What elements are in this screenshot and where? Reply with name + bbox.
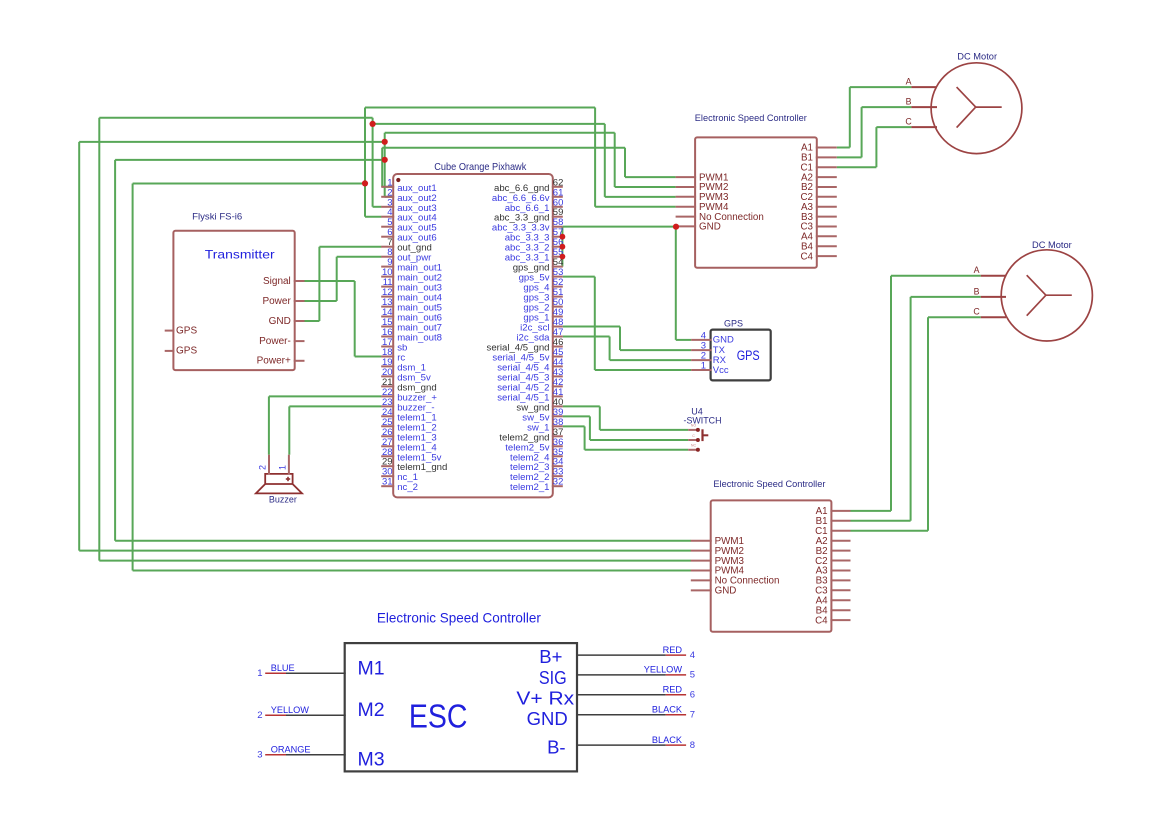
buzzer symbol [256, 474, 302, 494]
svg-text:YELLOW: YELLOW [271, 705, 310, 715]
wire Transmitter Power to Pixhawk out_pwr pin8 [305, 257, 382, 301]
buzzer plus mark [286, 477, 290, 481]
U1 pin 31 nc_2 [381, 477, 418, 494]
svg-text:ESC: ESC [409, 698, 468, 736]
wire Pixhawk sw_gnd pin40 to switch U4 pin1 [563, 406, 688, 430]
svg-text:Electronic Speed Controller: Electronic Speed Controller [377, 610, 541, 626]
buzzer pin 2 stub [268, 455, 270, 475]
label Electronic Speed Controller (ESC2) [713, 479, 825, 489]
wire Pixhawk i2c_scl pin48 to GPS TX [563, 327, 691, 351]
U1 pin 61 abc_6.6_6.6v [492, 187, 563, 204]
svg-text:Buzzer: Buzzer [269, 495, 297, 505]
ESC2 pin PWM4 [691, 566, 745, 577]
wire net aux_out4: Pixhawk pin4 to ESC1 PWM4 and ESC2 PWM4 [133, 108, 691, 571]
svg-text:Power: Power [262, 296, 291, 307]
U1 pin 9 main_out1 [381, 257, 442, 274]
svg-text:GPS: GPS [724, 319, 743, 329]
svg-text:3: 3 [257, 750, 262, 761]
GPS pin 3 TX [691, 341, 726, 356]
wire ESC2 B1 to DC Motor2 B [851, 297, 981, 521]
GPS pin 4 GND [691, 330, 734, 345]
svg-text:B: B [974, 286, 980, 296]
wire Transmitter Signal to Pixhawk rc pin18 [305, 281, 382, 357]
ESC1 pin C3 [800, 222, 836, 233]
U1 pin 28 telem1_5v [381, 447, 441, 464]
svg-text:1: 1 [257, 668, 262, 679]
wire net aux_out2: Pixhawk pin2 to ESC1 PWM2, ESC2 PWM2, ESC2 PWM1 [79, 133, 691, 551]
svg-text:GND: GND [269, 316, 291, 327]
U1 pin 44 serial_4/5_4 [497, 357, 563, 374]
svg-text:NO: NO [691, 424, 697, 428]
ESC1 pin A2 [801, 172, 837, 183]
wire Transmitter GND to Pixhawk out_gnd pin7 [305, 247, 382, 321]
ESC3 label ESC [409, 698, 468, 736]
svg-text:DC Motor: DC Motor [957, 52, 997, 62]
wire Pixhawk sw_1 pin38 to switch U4 pin3 [563, 426, 688, 449]
ESC3 label M3 [358, 749, 385, 771]
U1 pin1 orientation dot [396, 178, 400, 182]
U1 pin 23 buzzer_- [381, 397, 434, 414]
svg-text:nc_2: nc_2 [397, 482, 418, 493]
wire Pixhawk gps_5v pin53 to GPS Vcc [563, 277, 691, 370]
svg-text:DC Motor: DC Motor [1032, 240, 1072, 250]
U1 pin 41 serial_4/5_1 [497, 387, 563, 404]
ESC2 pin PWM2 [691, 546, 744, 557]
ESC3 label V+ Rx [516, 688, 575, 709]
transmitter pin GPS1 [165, 325, 198, 336]
U1 pin 14 main_out6 [381, 307, 442, 324]
svg-text:-SWITCH: -SWITCH [684, 415, 722, 425]
U1 pin 34 telem2_3 [510, 457, 563, 474]
ESC3 pin 7 wire BLACK [576, 705, 695, 721]
U1 pin 18 rc [381, 347, 405, 364]
U1 pin 55 abc_3.3_1 [505, 247, 564, 264]
wire Pixhawk buzzer_- pin23 to Buzzer pin1 [289, 406, 381, 454]
GPS module body [711, 330, 771, 381]
U1 pin 50 gps_2 [523, 297, 563, 314]
svg-text:C: C [905, 117, 912, 127]
ESC1 pin GND [676, 222, 721, 233]
ESC3 detail body [345, 643, 577, 771]
svg-text:Power+: Power+ [257, 356, 291, 367]
svg-text:SIG: SIG [539, 667, 567, 688]
ESC1 pin B4 [801, 241, 837, 252]
ESC3 label SIG [539, 667, 567, 688]
ESC1 pin C1 [800, 162, 836, 173]
U1 pin 37 telem2_gnd [499, 427, 563, 444]
svg-text:GND: GND [699, 222, 721, 233]
junction pin 57 [560, 234, 566, 240]
svg-text:BLACK: BLACK [652, 705, 683, 715]
U1 pin 7 out_gnd [381, 237, 432, 254]
U1 pin 40 sw_gnd [516, 397, 563, 414]
svg-text:4: 4 [690, 650, 695, 661]
U1 pin 20 dsm_5v [381, 367, 431, 384]
svg-text:Transmitter: Transmitter [205, 248, 275, 262]
transmitter pin GPS2 [165, 346, 198, 357]
svg-text:8: 8 [690, 740, 695, 751]
wire bus Pixhawk pins 58-54 vertical [561, 227, 563, 267]
ESC1 pin A3 [801, 202, 837, 213]
ESC2 pin A2 [816, 536, 851, 547]
transmitter pin Power [262, 296, 304, 307]
ESC3 label B+ [539, 646, 562, 667]
wire ESC1 B1 to DC Motor1 B [837, 107, 912, 157]
buzzer pin number 1 [278, 465, 288, 470]
motor M2 winding Y symbol [1027, 275, 1072, 316]
U1 pin 21 dsm_gnd [381, 377, 436, 394]
svg-text:GND: GND [527, 708, 568, 729]
svg-text:GND: GND [715, 586, 737, 597]
wire net aux_out1: Pixhawk pin1 to ESC1 PWM1 [382, 148, 675, 187]
ESC3 label B- [547, 737, 566, 758]
U1 pin 36 telem2_5v [505, 437, 563, 454]
transmitter pin GND [269, 316, 305, 327]
ESC1 pin PWM1 [676, 172, 729, 183]
motor M1 winding Y symbol [957, 87, 1002, 128]
U1 pin 43 serial_4/5_3 [497, 367, 563, 384]
svg-text:GPS: GPS [176, 346, 197, 357]
svg-text:B-: B- [547, 737, 566, 758]
ESC2 pin C3 [815, 586, 850, 597]
motor M2 DC Motor body [1001, 250, 1092, 341]
U1 pin 15 main_out7 [381, 317, 442, 334]
svg-text:C4: C4 [815, 615, 828, 626]
svg-text:Signal: Signal [263, 276, 291, 287]
ESC3 pin 6 wire RED [576, 685, 695, 701]
U1 pin 52 gps_4 [523, 277, 563, 294]
motor M2 pin A [974, 265, 1006, 276]
switch U4 pin 2 C [688, 434, 700, 442]
buzzer pin 1 stub [288, 455, 290, 475]
wire ESC1 A1 to DC Motor1 A [837, 87, 912, 147]
svg-text:C: C [692, 434, 695, 438]
svg-text:5: 5 [690, 670, 695, 681]
motor M1 DC Motor body [931, 63, 1022, 154]
label Cube Orange Pixhawk [434, 161, 527, 173]
ESC1 pin No Connection [676, 212, 764, 223]
svg-text:2: 2 [258, 465, 268, 470]
U1 pin 25 telem1_2 [381, 417, 436, 434]
motor M1 pin C [905, 117, 937, 128]
U1 pin 60 abc_6.6_1 [505, 197, 564, 214]
ESC1 pin PWM4 [676, 202, 729, 213]
svg-text:Vcc: Vcc [713, 365, 729, 376]
U1 pin 10 main_out2 [381, 267, 442, 284]
motor M2 pin B [974, 286, 1006, 297]
U1 pin 29 telem1_gnd [381, 457, 447, 474]
ESC3 pin 1 wire BLUE [257, 663, 345, 679]
label Transmitter [205, 248, 275, 262]
wire ESC1 C1 to DC Motor1 C [837, 127, 912, 167]
svg-text:M1: M1 [358, 658, 385, 680]
svg-text:BLUE: BLUE [271, 663, 295, 673]
svg-text:B+: B+ [539, 646, 562, 667]
ESC2 pin GND [691, 586, 737, 597]
ESC1 pin A1 [801, 143, 837, 154]
U1 pin 48 i2c_scl [520, 317, 563, 334]
svg-text:A: A [974, 265, 980, 275]
U1 pin 54 gps_gnd [513, 257, 564, 274]
junction aux_out2 net upper [382, 139, 388, 145]
ESC3 pin 4 wire RED [576, 645, 695, 661]
svg-text:GPS: GPS [176, 325, 197, 336]
junction aux_out3 net [370, 121, 376, 127]
ESC2 pin B4 [816, 605, 851, 616]
U1 pin 30 nc_1 [381, 467, 418, 484]
U1 pin 5 aux_out5 [381, 217, 436, 234]
svg-text:GPS: GPS [737, 348, 760, 363]
U1 pin 12 main_out4 [381, 287, 442, 304]
switch U4 lever symbol [703, 429, 709, 441]
U1 pin 46 serial_4/5_gnd [487, 337, 564, 354]
U1 pin 35 telem2_4 [510, 447, 563, 464]
motor M2 pin C [973, 307, 1006, 318]
svg-text:32: 32 [553, 477, 564, 488]
U1 pin 27 telem1_4 [381, 437, 437, 454]
wire Pixhawk abc_3.3_3.3v pin58 to ESC1 GND and GPS GND [563, 227, 691, 340]
U1 pin 1 aux_out1 [381, 177, 436, 194]
transmitter pin Power- [259, 336, 304, 347]
U1 pin 47 i2c_sda [516, 327, 563, 344]
label Buzzer [269, 495, 297, 505]
U1 pin 59 abc_3.3_gnd [494, 207, 563, 224]
transmitter Flyski FS-i6 body [173, 231, 294, 370]
ESC2 pin C1 [815, 526, 850, 537]
ESC2 pin A4 [816, 596, 851, 607]
svg-text:telem2_1: telem2_1 [510, 482, 549, 493]
svg-text:A: A [906, 77, 912, 87]
U1 pin 45 serial_4/5_5v [492, 347, 563, 364]
ESC2 pin PWM3 [691, 556, 745, 567]
GPS pin 2 RX [691, 351, 727, 366]
GPS pin 1 Vcc [691, 361, 729, 376]
svg-text:C: C [973, 307, 980, 317]
U1 pin 17 sb [381, 337, 407, 354]
transmitter pin Signal [263, 276, 305, 287]
U1 pin 3 aux_out3 [381, 197, 436, 214]
svg-text:6: 6 [690, 690, 695, 701]
U1 pin 4 aux_out4 [381, 207, 437, 224]
ESC1 Electronic Speed Controller body [695, 137, 817, 267]
junction pin 55 [560, 254, 566, 260]
svg-text:31: 31 [382, 477, 393, 488]
U1 pin 38 sw_1 [527, 417, 563, 434]
label DC Motor (M1) [957, 52, 997, 62]
U1 pin 57 abc_3.3_3 [505, 227, 564, 244]
U1 pin 39 sw_5v [522, 407, 563, 424]
svg-text:NC: NC [691, 444, 697, 448]
label DC Motor (M2) [1032, 240, 1072, 250]
junction aux_out2 net lower [382, 157, 388, 163]
label Electronic Speed Controller (ESC1) [695, 113, 807, 123]
label GPS big [737, 348, 760, 363]
ESC2 pin PWM1 [691, 536, 744, 547]
svg-text:1: 1 [278, 465, 288, 470]
transmitter pin Power+ [257, 356, 305, 367]
U1 pin 19 dsm_1 [381, 357, 426, 374]
wire Pixhawk i2c_sda pin47 to GPS RX [563, 337, 691, 361]
ESC3 pin 8 wire BLACK [576, 735, 695, 751]
junction aux_out4 net [362, 180, 368, 186]
junction pin 56 [560, 244, 566, 250]
U1 pin 62 abc_6.6_gnd [494, 177, 563, 194]
switch U4 pin 1 NO [688, 424, 700, 432]
ESC2 pin A3 [816, 566, 851, 577]
wire Pixhawk buzzer_+ pin22 to Buzzer pin2 [269, 396, 382, 454]
ESC1 pin B3 [801, 212, 837, 223]
IC U1 Cube Orange Pixhawk body [393, 174, 553, 497]
ESC2 pin B2 [816, 546, 851, 557]
U1 pin 42 serial_4/5_2 [497, 377, 563, 394]
ESC1 pin PWM2 [676, 182, 729, 193]
svg-text:Electronic Speed Controller: Electronic Speed Controller [695, 113, 807, 123]
svg-text:7: 7 [690, 710, 695, 721]
U1 pin 51 gps_3 [523, 287, 563, 304]
svg-text:RED: RED [663, 685, 683, 695]
ESC1 pin C2 [800, 192, 836, 203]
switch U4 pin 3 NC [688, 444, 700, 452]
svg-text:1: 1 [701, 361, 706, 372]
U1 pin 33 telem2_2 [510, 467, 563, 484]
ESC1 pin A4 [801, 232, 837, 243]
ESC3 pin 5 wire YELLOW [576, 665, 695, 681]
junction at ESC1 GND pin [673, 224, 679, 230]
ESC1 pin C4 [800, 251, 836, 262]
U1 pin 26 telem1_3 [381, 427, 436, 444]
U1 pin 8 out_pwr [381, 247, 432, 264]
buzzer pin number 2 [258, 465, 268, 470]
svg-text:Cube Orange Pixhawk: Cube Orange Pixhawk [434, 161, 527, 173]
ESC2 pin C4 [815, 615, 850, 626]
U1 pin 53 gps_5v [519, 267, 564, 284]
svg-text:M3: M3 [358, 749, 385, 771]
ESC3 label M1 [358, 658, 385, 680]
label Flyski FS-i6 [192, 212, 242, 223]
ESC2 pin A1 [816, 506, 851, 517]
svg-text:C4: C4 [800, 251, 813, 262]
svg-text:ORANGE: ORANGE [271, 745, 311, 755]
U1 pin 6 aux_out6 [381, 227, 436, 244]
U1 pin 13 main_out5 [381, 297, 442, 314]
wire ESC2 A1 to DC Motor2 A [851, 276, 981, 511]
U1 pin 49 gps_1 [523, 307, 563, 324]
U1 pin 2 aux_out2 [381, 187, 436, 204]
svg-text:Electronic Speed Controller: Electronic Speed Controller [713, 479, 825, 489]
motor M1 pin B [906, 97, 937, 108]
svg-text:RED: RED [663, 645, 683, 655]
motor M1 pin A [906, 77, 937, 88]
switch U4 value label -SWITCH [684, 415, 722, 425]
svg-text:BLACK: BLACK [652, 735, 683, 745]
svg-text:V+ Rx: V+ Rx [516, 688, 575, 709]
ESC1 pin B2 [801, 182, 837, 193]
wire ESC2 C1 to DC Motor2 C [851, 317, 981, 531]
wire Pixhawk sw_5v pin39 to switch U4 pin2 [563, 416, 688, 440]
U1 pin 16 main_out8 [381, 327, 442, 344]
svg-text:M2: M2 [358, 699, 385, 721]
U1 pin 11 main_out3 [381, 277, 442, 294]
U1 pin 24 telem1_1 [381, 407, 436, 424]
svg-text:Power-: Power- [259, 336, 291, 347]
ESC3 pin 2 wire YELLOW [257, 705, 345, 721]
ESC2 Electronic Speed Controller body [711, 500, 832, 631]
svg-text:YELLOW: YELLOW [644, 665, 683, 675]
ESC3 label GND [527, 708, 568, 729]
ESC2 pin No Connection [691, 576, 780, 587]
switch U4 reference label [691, 407, 703, 417]
ESC2 pin B3 [816, 576, 851, 587]
ESC3 pin 3 wire ORANGE [257, 745, 345, 761]
svg-text:2: 2 [257, 710, 262, 721]
U1 pin 32 telem2_1 [510, 477, 563, 494]
ESC2 pin B1 [816, 516, 851, 527]
ESC1 pin PWM3 [676, 192, 729, 203]
ESC2 pin C2 [815, 556, 850, 567]
ESC3 label M2 [358, 699, 385, 721]
U1 pin 58 abc_3.3_3.3v [492, 217, 563, 234]
U1 pin 56 abc_3.3_2 [505, 237, 564, 254]
wire net aux_out3: Pixhawk pin3 to ESC1 PWM3 and ESC2 PWM3 [99, 118, 691, 561]
ESC1 pin B1 [801, 153, 837, 164]
svg-text:Flyski FS-i6: Flyski FS-i6 [192, 212, 242, 223]
U1 pin 22 buzzer_+ [381, 387, 437, 404]
label GPS title [724, 319, 743, 329]
label Electronic Speed Controller (bottom) [377, 610, 541, 626]
svg-text:B: B [906, 97, 912, 107]
